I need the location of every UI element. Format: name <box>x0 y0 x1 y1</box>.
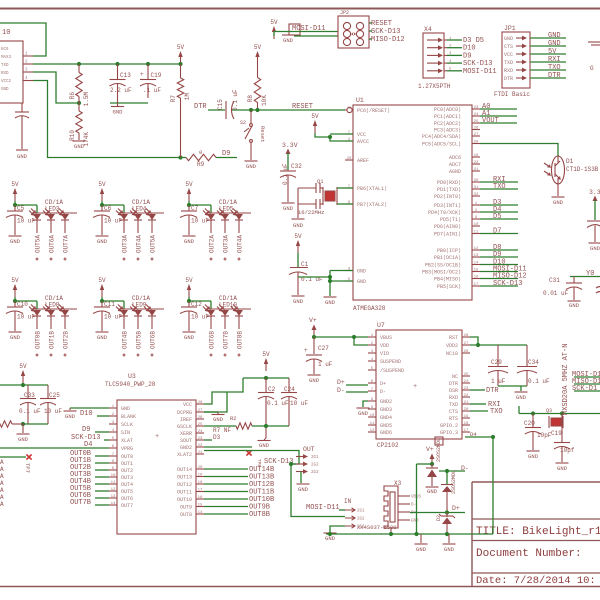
wire U1 MISO-D12 <box>480 278 518 280</box>
svg-text:24: 24 <box>474 113 479 117</box>
part label LED4 <box>132 199 150 213</box>
svg-text:27: 27 <box>198 409 203 413</box>
wire JP1 pin4 <box>530 61 566 63</box>
svg-text:10pF: 10pF <box>537 432 552 439</box>
svg-text:10: 10 <box>2 29 10 37</box>
svg-text:1.5M: 1.5M <box>83 92 90 107</box>
svg-text:JP1: JP1 <box>504 25 516 32</box>
svg-text:24: 24 <box>464 380 469 384</box>
capacitor C12 10uF <box>180 301 209 321</box>
svg-text:U3: U3 <box>128 373 136 380</box>
net label MOSI-D11 (U1) <box>493 266 527 274</box>
svg-text:A: A <box>0 459 4 466</box>
svg-text:0.1 uF: 0.1 uF <box>282 163 289 185</box>
svg-text:X4: X4 <box>424 26 432 33</box>
svg-text:GND: GND <box>283 205 294 212</box>
net label OUT5B <box>70 485 91 493</box>
svg-text:C20: C20 <box>524 420 535 427</box>
capacitor C10 10uF <box>6 301 35 321</box>
svg-text:17: 17 <box>198 488 203 492</box>
wire D+ net <box>410 512 465 514</box>
wire U1 D3 <box>480 204 518 206</box>
LED LED10-1 to OUT6B <box>203 305 216 357</box>
svg-text:GND: GND <box>10 238 21 245</box>
svg-text:OUT10: OUT10 <box>177 497 192 503</box>
junction 5V-R7 <box>178 62 182 66</box>
net label SCK-D13 (TP8) <box>264 458 293 466</box>
net label MOSI-D11 (X4) <box>463 68 497 76</box>
wire U1 VOUT <box>480 122 517 124</box>
svg-text:AREF: AREF <box>357 158 369 164</box>
svg-text:TLC5940_PWP_28: TLC5940_PWP_28 <box>105 381 156 388</box>
svg-text:5V: 5V <box>311 113 319 120</box>
svg-text:OUT7B: OUT7B <box>223 331 230 349</box>
wire 5V rail U3 <box>243 377 289 379</box>
svg-text:GND: GND <box>18 436 29 443</box>
svg-text:2G3: 2G3 <box>357 526 365 530</box>
wire 5V to C6 <box>101 201 103 205</box>
net label OUT0B <box>70 450 91 458</box>
ground C1 <box>292 296 305 305</box>
svg-text:CTS: CTS <box>449 409 458 415</box>
svg-text:DCPRG: DCPRG <box>177 410 192 416</box>
svg-text:OUT7: OUT7 <box>121 503 133 509</box>
svg-text:GSCLK: GSCLK <box>177 424 192 430</box>
svg-text:PB2(SS/OC1B): PB2(SS/OC1B) <box>425 263 461 269</box>
svg-text:D5: D5 <box>493 213 501 221</box>
svg-text:23: 23 <box>474 106 479 110</box>
svg-text:22: 22 <box>474 161 479 165</box>
clipped net label left edge 2 <box>0 473 4 480</box>
net label OUT7B <box>70 499 91 507</box>
wire X4 pin5 <box>447 70 462 72</box>
svg-text:R9: R9 <box>197 161 205 168</box>
resistor R6 1.5M <box>69 64 90 106</box>
svg-text:R8: R8 <box>247 95 254 103</box>
junction switch node <box>249 108 253 112</box>
svg-text:0.1 uF: 0.1 uF <box>232 89 239 111</box>
svg-text:D9: D9 <box>82 426 90 434</box>
svg-text:10K: 10K <box>261 95 268 106</box>
LED LED3-1 to OUT5A <box>29 209 42 261</box>
net label D7 (U1) <box>493 228 501 236</box>
svg-text:DTR: DTR <box>548 72 561 80</box>
svg-text:GND: GND <box>548 32 561 40</box>
svg-text:PB5(SCK): PB5(SCK) <box>437 284 461 290</box>
svg-text:FTDI Basic: FTDI Basic <box>494 91 530 98</box>
svg-text:R2: R2 <box>230 415 237 422</box>
svg-text:MOSI-D11: MOSI-D11 <box>463 68 497 76</box>
svg-text:C27: C27 <box>318 345 329 352</box>
svg-text:PC2(ADC2): PC2(ADC2) <box>434 121 461 127</box>
net label MOSI-D11 (ISP) <box>292 25 326 33</box>
svg-text:R6: R6 <box>69 92 76 100</box>
svg-text:2G3: 2G3 <box>311 471 319 475</box>
part label LED8 <box>45 295 63 309</box>
svg-text:D-: D- <box>411 504 416 508</box>
svg-text:GND: GND <box>184 238 195 245</box>
clipped net label left edge 6 <box>0 501 4 508</box>
svg-text:OUT2: OUT2 <box>121 468 133 474</box>
supply 3.3V right edge <box>589 189 600 220</box>
ground C6 <box>96 220 109 245</box>
svg-text:SCK-D13: SCK-D13 <box>264 458 293 466</box>
clipped net label left edge 4 <box>0 487 4 494</box>
wire U1 D8 <box>480 249 518 251</box>
net label D3 D5 (X4) <box>463 37 484 45</box>
ground C12 <box>183 316 196 341</box>
net label DTR (U7) <box>486 387 499 395</box>
wire U1 D10 <box>480 264 518 266</box>
junction C1 node <box>328 275 332 279</box>
svg-text:5V: 5V <box>294 233 302 240</box>
svg-text:20: 20 <box>347 157 352 161</box>
svg-text:GND: GND <box>553 199 564 206</box>
diode D5 <box>426 464 438 486</box>
svg-text:MXSD20A 5MHZ AT-N: MXSD20A 5MHZ AT-N <box>562 344 570 415</box>
svg-text:RST: RST <box>449 335 458 341</box>
svg-text:DTR: DTR <box>486 387 499 395</box>
wire DTR to C15 <box>208 109 225 111</box>
svg-text:C24: C24 <box>284 386 295 393</box>
svg-text:C7: C7 <box>191 205 199 212</box>
net label Y0 <box>586 270 594 278</box>
net label OUT12B <box>249 481 274 489</box>
svg-text:GND: GND <box>557 465 568 472</box>
LED anode bus LED3 <box>32 212 77 214</box>
wire 5V to C7 <box>188 201 190 205</box>
svg-text:D-: D- <box>337 387 345 394</box>
svg-text:OUT7B: OUT7B <box>70 499 91 507</box>
svg-text:A: A <box>0 466 4 473</box>
resistor R10 174K <box>69 103 90 146</box>
junction C7 node <box>187 203 191 207</box>
svg-text:32: 32 <box>474 193 479 197</box>
svg-text:28: 28 <box>464 334 469 338</box>
svg-text:AVCC: AVCC <box>357 139 369 145</box>
net label RXI (JP1) <box>548 56 561 64</box>
wire X3 stub bottom <box>390 528 392 534</box>
wire U3 DCPRG staircase <box>204 392 227 412</box>
svg-text:NC: NC <box>452 374 458 380</box>
svg-text:11: 11 <box>370 422 375 426</box>
capacitor C25 10uF <box>40 385 62 424</box>
net label MISO-D1 right edge <box>572 378 600 386</box>
crystal Q1 16MHz <box>298 178 337 218</box>
svg-text:GND: GND <box>548 40 561 48</box>
svg-text:10 uF: 10 uF <box>191 218 209 225</box>
svg-text:MISO-D12: MISO-D12 <box>371 36 405 44</box>
wire JP1 pin2 <box>530 45 566 47</box>
part label D3 vertical <box>451 470 457 494</box>
junction R6-R10 node <box>77 101 81 105</box>
svg-text:16: 16 <box>474 275 479 279</box>
svg-text:RESET: RESET <box>371 20 392 28</box>
wire ISP RESET <box>369 22 372 24</box>
wire R2 to C24 <box>252 425 289 427</box>
LED LED9-3 to OUT6B <box>144 305 157 357</box>
svg-text:GPIO.3: GPIO.3 <box>440 430 458 436</box>
wire LED4 rail <box>102 205 124 213</box>
svg-text:OUT4: OUT4 <box>121 482 133 488</box>
svg-text:A: A <box>0 473 4 480</box>
ground C29/C34 <box>515 392 528 401</box>
wire right edge MISO-D1 <box>574 383 600 385</box>
svg-text:PD0(RXD): PD0(RXD) <box>437 180 461 186</box>
svg-text:5V: 5V <box>548 48 557 56</box>
svg-text:ADC6: ADC6 <box>449 155 461 161</box>
svg-text:NC10: NC10 <box>446 351 458 357</box>
svg-text:0.1 uF: 0.1 uF <box>267 400 289 407</box>
svg-text:OUT6B: OUT6B <box>209 331 216 349</box>
net label TXO (JP1) <box>548 64 561 72</box>
power 5V for LED3 group <box>11 181 19 201</box>
wire right riser <box>465 435 495 534</box>
svg-text:23: 23 <box>198 437 203 441</box>
svg-text:CT1D-1S3B: CT1D-1S3B <box>566 166 599 173</box>
net label D+ <box>452 505 460 512</box>
net label D9 at R9 <box>222 150 230 158</box>
svg-text:14: 14 <box>474 261 479 265</box>
svg-text:14: 14 <box>111 502 116 506</box>
svg-text:18: 18 <box>198 481 203 485</box>
svg-text:10 uF: 10 uF <box>290 400 308 407</box>
svg-text:GND: GND <box>411 520 419 524</box>
power 5V for LED8 group <box>11 277 19 297</box>
svg-text:D+: D+ <box>337 379 345 386</box>
svg-text:R7 NF: R7 NF <box>213 427 231 434</box>
wire RESET to U1 <box>345 109 347 111</box>
svg-text:RXD: RXD <box>504 68 513 74</box>
net label D9 (U3) <box>82 426 90 434</box>
svg-text:VBUS: VBUS <box>380 335 392 341</box>
title block border <box>472 482 600 587</box>
svg-text:30: 30 <box>474 179 479 183</box>
net label MISO-D12 (ISP) <box>371 36 405 44</box>
LED anode bus LED8 <box>32 308 77 310</box>
net label TXO (U7) <box>490 408 503 416</box>
net label D4 (U1) <box>493 206 501 214</box>
svg-text:MOSI-D11: MOSI-D11 <box>292 25 326 33</box>
capacitor C24 10uF <box>281 378 308 426</box>
svg-text:5V: 5V <box>11 181 19 188</box>
svg-text:C15: C15 <box>217 99 224 110</box>
svg-text:C33: C33 <box>24 392 35 399</box>
ground C7 <box>183 220 196 245</box>
wire U3 XLAT long <box>0 447 109 449</box>
ground C13/C19 <box>111 103 124 116</box>
LED LED9-1 to OUT4B <box>116 305 129 357</box>
switch S2 Reset <box>240 110 266 160</box>
svg-text:11: 11 <box>474 230 479 234</box>
svg-text:TXD: TXD <box>504 60 513 66</box>
svg-text:DSR: DSR <box>449 388 458 394</box>
svg-text:OUT5: OUT5 <box>121 489 133 495</box>
svg-text:OUT6A: OUT6A <box>49 235 56 253</box>
svg-text:D3: D3 <box>213 434 221 441</box>
wire GND into ISP header <box>294 35 338 37</box>
svg-text:GND: GND <box>325 299 336 306</box>
junction U7 cap rail <box>476 343 480 347</box>
svg-text:XERR: XERR <box>180 431 192 437</box>
net label SCK-D13 (U1) <box>493 280 522 288</box>
svg-text:MOSI-D11: MOSI-D11 <box>306 504 340 512</box>
svg-text:D7: D7 <box>493 228 501 236</box>
svg-text:18: 18 <box>464 422 469 426</box>
capacitor C30 right edge <box>587 221 600 242</box>
svg-text:PC3(ADC3): PC3(ADC3) <box>434 128 461 134</box>
svg-text:19: 19 <box>474 154 479 158</box>
wire JP1 pin3 <box>530 53 566 55</box>
svg-text:VCC2: VCC2 <box>1 80 12 84</box>
svg-text:GND: GND <box>444 546 455 553</box>
svg-text:VDD2: VDD2 <box>446 343 458 349</box>
svg-text:11: 11 <box>111 481 116 485</box>
ground C19 <box>556 463 569 472</box>
ground S2 <box>245 161 258 170</box>
ground C27 <box>308 375 321 384</box>
svg-text:OUT12: OUT12 <box>177 482 192 488</box>
svg-text:+: + <box>140 71 144 78</box>
junction R7 bottom node <box>178 155 182 159</box>
ground C32 <box>282 203 295 212</box>
svg-text:19: 19 <box>464 415 469 419</box>
junction C20 node <box>531 411 535 415</box>
svg-text:2G1: 2G1 <box>311 456 319 460</box>
svg-text:16/22MHz: 16/22MHz <box>298 209 324 216</box>
svg-text:17: 17 <box>474 283 479 287</box>
ferrite bead ISP header <box>289 24 300 35</box>
net label D9 (X4) <box>463 52 471 60</box>
LED anode bus LED5 <box>206 212 251 214</box>
svg-text:10 uF: 10 uF <box>104 218 122 225</box>
svg-text:GND: GND <box>184 334 195 341</box>
svg-text:C13: C13 <box>120 72 131 79</box>
ground C11 <box>96 316 109 341</box>
net label VOUT <box>482 117 499 125</box>
capacitor C33 0.1uF <box>19 385 41 424</box>
net label MOSI-D11 (X2) <box>306 504 340 512</box>
LED LED8-2 to OUT1B <box>43 305 56 357</box>
capacitor C2 0.1uF <box>258 378 289 438</box>
svg-text:X3: X3 <box>394 480 402 487</box>
svg-text:GND: GND <box>528 453 539 460</box>
wire U3 VCC staircase <box>204 378 243 404</box>
thermal pad U7 <box>435 437 443 445</box>
junction C19 node <box>560 411 564 415</box>
wire C31 net <box>570 276 600 278</box>
supply V+ diodes <box>426 446 435 464</box>
svg-text:OUT7A: OUT7A <box>63 235 70 253</box>
junction rail-R6 <box>77 62 81 66</box>
wire JP1 pin6 <box>530 77 566 79</box>
svg-text:DTR: DTR <box>449 381 458 387</box>
svg-text:S2: S2 <box>240 120 246 126</box>
svg-text:D1: D1 <box>566 158 574 165</box>
svg-text:OUT11: OUT11 <box>177 490 192 496</box>
svg-text:5V: 5V <box>11 277 19 284</box>
svg-text:Document Number:: Document Number: <box>476 548 582 560</box>
svg-text:VPRG: VPRG <box>121 446 133 452</box>
wire U3 GND2 <box>204 446 252 448</box>
svg-text:5V: 5V <box>262 351 270 358</box>
svg-text:GPIO.2: GPIO.2 <box>440 423 458 429</box>
svg-text:PB6(XTAL1): PB6(XTAL1) <box>357 186 387 192</box>
net label GND (JP1) <box>548 32 561 40</box>
net label D3 (U3) <box>204 434 221 441</box>
net label R7 NF <box>213 427 231 434</box>
net label A1 <box>482 110 490 118</box>
op-amp U1 ATMEGA328 body <box>345 97 480 312</box>
junction GND pin node <box>328 279 332 283</box>
svg-text:GND: GND <box>113 109 124 116</box>
LED LED8-3 to OUT2B <box>57 305 70 357</box>
svg-text:SCK-D1: SCK-D1 <box>572 385 597 393</box>
svg-text:OUT13: OUT13 <box>177 475 192 481</box>
ground D1 <box>552 197 565 206</box>
wire U3 OUT5B <box>95 490 109 492</box>
svg-text:3.3V: 3.3V <box>282 142 298 149</box>
wire U3 SIN <box>95 431 109 433</box>
svg-text:SCK-D13: SCK-D13 <box>371 28 400 36</box>
svg-text:OUT8B: OUT8B <box>237 331 244 349</box>
svg-text:D+: D+ <box>380 381 386 387</box>
svg-text:GND2: GND2 <box>180 445 192 451</box>
svg-text:OUT1: OUT1 <box>121 461 133 467</box>
supply 3.3V arrow <box>282 142 298 170</box>
svg-text:PD3(INT1): PD3(INT1) <box>434 203 461 209</box>
svg-text:GND: GND <box>358 410 369 417</box>
svg-text:2.2 uF: 2.2 uF <box>110 87 132 94</box>
wire Q1 XTAL1 <box>337 187 353 189</box>
wire U1 D5 <box>480 218 518 220</box>
svg-text:26: 26 <box>474 126 479 130</box>
svg-text:GND4: GND4 <box>380 415 392 421</box>
net label MOSI-D1 right edge <box>572 371 600 379</box>
LED LED5-2 to OUT3A <box>217 209 230 261</box>
ground U3 GND pin <box>64 408 110 420</box>
svg-text:AGND: AGND <box>449 169 461 175</box>
ground ISP header <box>282 35 294 44</box>
power 5V for LED9 group <box>98 277 106 297</box>
wire JP1 pin1 <box>530 37 566 39</box>
test point TP8 <box>246 450 262 467</box>
junction rails <box>328 532 449 536</box>
wire OUT pin2 junction <box>289 462 296 466</box>
svg-text:25: 25 <box>474 120 479 124</box>
svg-text:OUT8B: OUT8B <box>249 511 270 519</box>
svg-text:22: 22 <box>198 444 203 448</box>
wire JP1 pin5 <box>530 69 566 71</box>
LED LED4-2 to OUT4A <box>130 209 143 261</box>
svg-text:+: + <box>155 433 159 441</box>
net label OUT3B <box>70 471 91 479</box>
svg-text:TP7: TP7 <box>24 463 31 473</box>
svg-text:OUT2A: OUT2A <box>209 235 216 253</box>
svg-text:25: 25 <box>198 423 203 427</box>
svg-text:GND: GND <box>97 238 108 245</box>
svg-text:C11: C11 <box>104 301 115 308</box>
svg-text:OUT1B: OUT1B <box>49 331 56 349</box>
svg-text:1.27X5PTH: 1.27X5PTH <box>418 83 451 90</box>
wire D1 to ground <box>557 184 559 196</box>
svg-text:16: 16 <box>198 496 203 500</box>
svg-text:GND: GND <box>590 245 600 252</box>
capacitor C29 1uF <box>488 345 508 386</box>
svg-text:GND2: GND2 <box>380 399 392 405</box>
LED LED5-3 to OUT4A <box>231 209 244 261</box>
svg-text:GND: GND <box>121 406 130 412</box>
